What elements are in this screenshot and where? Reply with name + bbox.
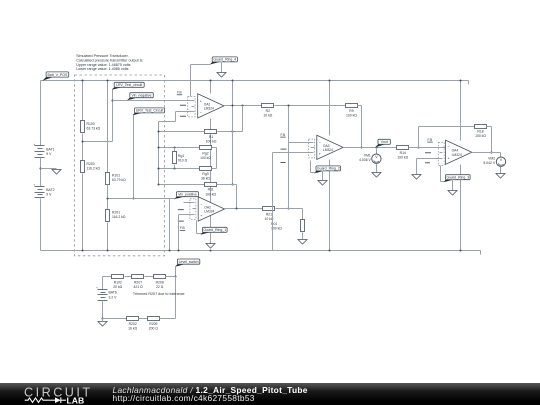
svg-text:421 Ω: 421 Ω: [133, 285, 143, 289]
svg-text:LM324: LM324: [323, 148, 333, 152]
svg-text:R21: R21: [266, 213, 272, 217]
svg-text:10 kΩ: 10 kΩ: [263, 114, 272, 118]
svg-text:16 kΩ: 16 kΩ: [128, 327, 137, 331]
svg-text:Lower range value: 1.4085 volt: Lower range value: 1.4085 volts: [76, 67, 128, 71]
svg-text:LM324: LM324: [452, 153, 462, 157]
svg-text:BAT6: BAT6: [109, 291, 117, 295]
svg-text:63.79 kΩ: 63.79 kΩ: [112, 178, 126, 182]
svg-text:R01: R01: [271, 222, 277, 226]
svg-text:R101: R101: [112, 173, 120, 177]
svg-text:20 kΩ: 20 kΩ: [113, 285, 122, 289]
svg-text:3.2 V: 3.2 V: [109, 295, 118, 299]
svg-text:R1: R1: [209, 135, 213, 139]
svg-text:116.2 kΩ: 116.2 kΩ: [87, 166, 101, 170]
svg-text:R9: R9: [349, 109, 353, 113]
svg-text:+: +: [33, 183, 35, 187]
svg-text:+: +: [96, 285, 98, 289]
svg-text:R100: R100: [87, 122, 95, 126]
svg-text:R200: R200: [87, 162, 95, 166]
svg-text:116.2 kΩ: 116.2 kΩ: [112, 215, 126, 219]
svg-text:100 kΩ: 100 kΩ: [206, 139, 217, 143]
svg-text:Vout: Vout: [381, 140, 388, 144]
svg-text:100 kΩ: 100 kΩ: [200, 156, 211, 160]
svg-text:Guard_Ring_4: Guard_Ring_4: [213, 58, 236, 62]
svg-text:200 Ω: 200 Ω: [149, 327, 159, 331]
svg-text:R209: R209: [149, 322, 157, 326]
svg-text:LAB: LAB: [67, 395, 85, 405]
svg-text:LRV_Test_circuit: LRV_Test_circuit: [116, 83, 142, 87]
svg-text:Rg3: Rg3: [202, 172, 208, 176]
svg-text:F.B: F.B: [177, 91, 182, 95]
svg-text:36 kΩ: 36 kΩ: [201, 177, 210, 181]
svg-text:F.B: F.B: [428, 138, 433, 142]
svg-text:Guard_Ring_3: Guard_Ring_3: [446, 175, 469, 179]
svg-text:F.B: F.B: [180, 226, 185, 230]
svg-text:VM1: VM1: [364, 153, 371, 157]
svg-text:100 kΩ: 100 kΩ: [397, 156, 408, 160]
svg-text:F.B: F.B: [281, 133, 286, 137]
svg-text:Trimmed R207 due to tolerance: Trimmed R207 due to tolerance: [133, 292, 185, 296]
svg-text:BAT2: BAT2: [46, 188, 54, 192]
svg-text:Rg1: Rg1: [178, 154, 184, 158]
svg-text:BAT1: BAT1: [46, 147, 54, 151]
svg-text:VM2: VM2: [488, 156, 495, 160]
svg-text:Guard_Ring_1: Guard_Ring_1: [203, 228, 226, 232]
svg-text:9 V: 9 V: [46, 193, 52, 197]
svg-text:R208: R208: [156, 280, 164, 284]
svg-text:R2: R2: [266, 109, 270, 113]
svg-text:100 kΩ: 100 kΩ: [346, 114, 357, 118]
svg-text:R18: R18: [477, 130, 483, 134]
svg-text:R207: R207: [134, 280, 142, 284]
svg-text:100 kΩ: 100 kΩ: [205, 192, 216, 196]
svg-text:Rg2: Rg2: [202, 151, 208, 155]
svg-text:910 Ω: 910 Ω: [178, 159, 188, 163]
svg-text:100 kΩ: 100 kΩ: [475, 134, 486, 138]
svg-text:URV_Test_Circuit: URV_Test_Circuit: [136, 109, 164, 113]
svg-text:Vin_positive: Vin_positive: [178, 192, 197, 196]
svg-text:LM324: LM324: [204, 210, 214, 214]
svg-text:5.042 V: 5.042 V: [483, 161, 495, 165]
svg-text:4.036 V: 4.036 V: [359, 158, 371, 162]
svg-text:Batt_V_POS: Batt_V_POS: [47, 73, 68, 77]
svg-text:R11: R11: [208, 188, 214, 192]
svg-text:R202: R202: [129, 322, 137, 326]
svg-text:+: +: [33, 142, 35, 146]
svg-text:Vin_negative: Vin_negative: [131, 93, 151, 97]
svg-text:R102: R102: [114, 280, 122, 284]
svg-text:LM324: LM324: [204, 106, 214, 110]
svg-text:9 V: 9 V: [46, 152, 52, 156]
svg-text:Guard_Ring_2: Guard_Ring_2: [317, 167, 340, 171]
svg-text:R201: R201: [112, 210, 120, 214]
svg-text:63.73 kΩ: 63.73 kΩ: [87, 126, 101, 130]
svg-text:R14: R14: [400, 151, 406, 155]
svg-text:22 Ω: 22 Ω: [156, 285, 164, 289]
svg-text:Level_switch: Level_switch: [179, 260, 199, 264]
